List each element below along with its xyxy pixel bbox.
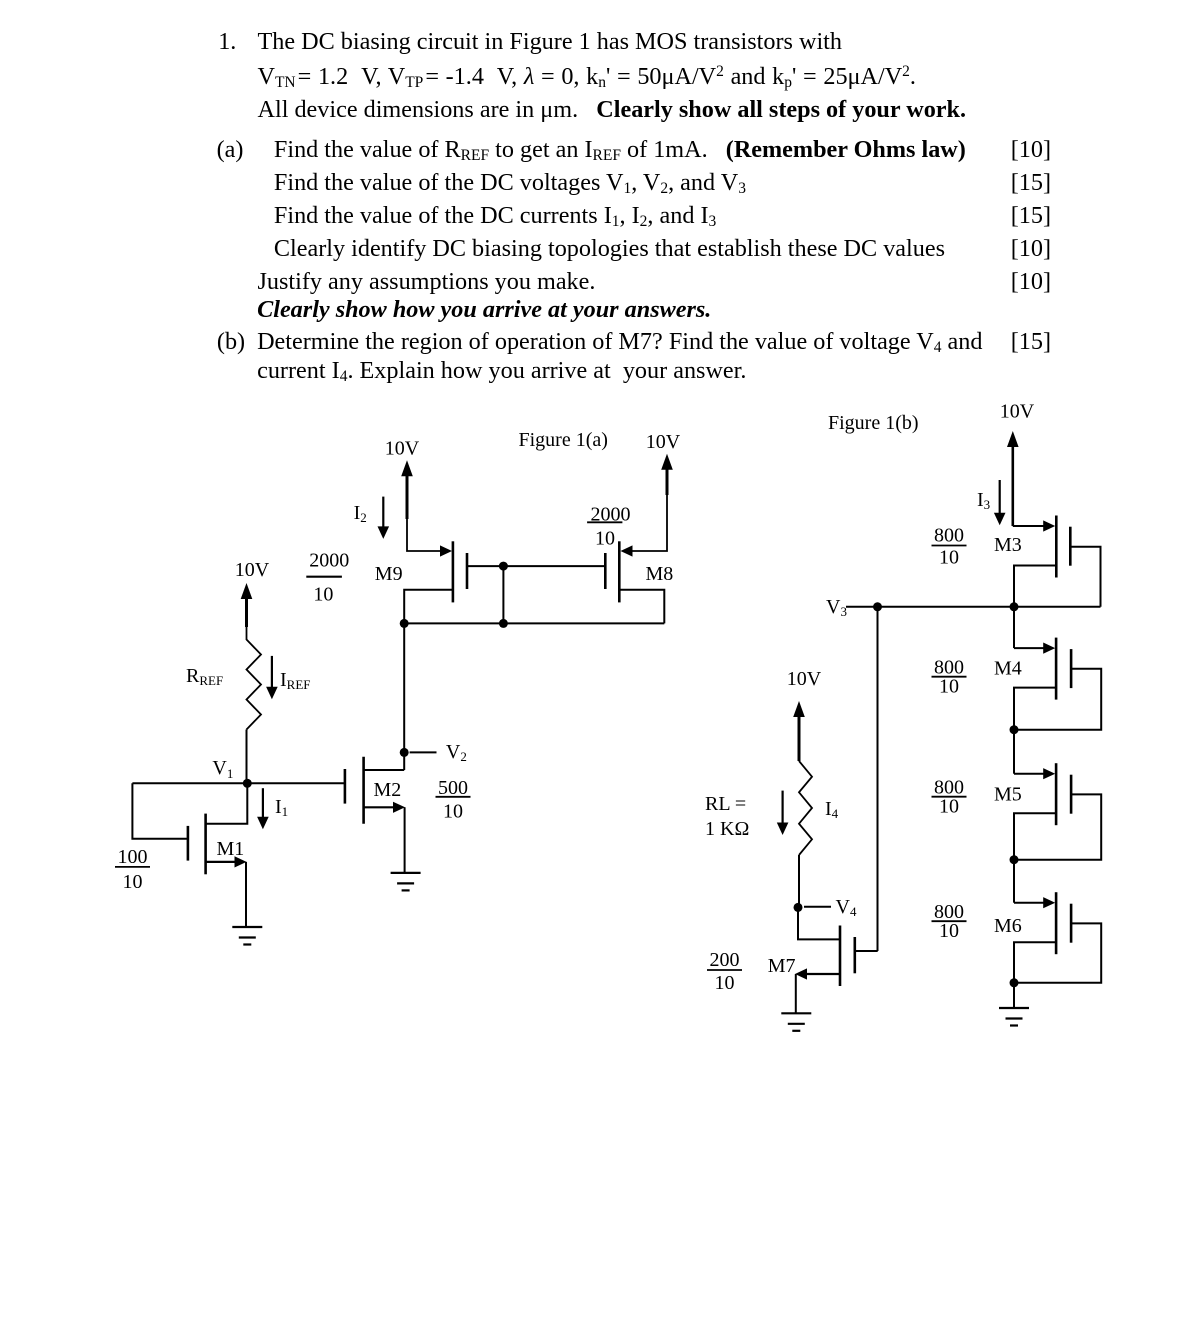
svg-text:500: 500 [438,777,468,799]
svg-text:M2: M2 [374,779,402,801]
current arrow I3 [994,480,1006,525]
label 800/10 (M4 W/L) [932,657,967,698]
label RREF [186,665,223,688]
svg-text:800: 800 [934,525,964,547]
node 10V supply label (left RREF branch) [235,559,270,581]
transistor M7 channel bar [839,926,842,987]
svg-text:I2: I2 [354,502,367,525]
label M9 [375,563,403,585]
svg-text:10: 10 [939,547,959,569]
svg-text:10: 10 [595,527,615,549]
ground (M6) [999,1008,1029,1026]
svg-text:10: 10 [123,871,143,893]
transistor M4 channel bar [1055,638,1058,700]
wire RL to node V4 [798,855,800,907]
svg-text:M5: M5 [994,784,1022,806]
label 800/10 (M6 W/L) [932,901,967,942]
transistor M7 source lead with arrow [795,968,840,979]
ground (M7) [781,1013,811,1031]
transistor M1 source lead with arrow [206,856,247,867]
node V3 junction (M7 gate tap) [873,602,882,611]
transistor M6 drain lead with arrow [1014,897,1055,908]
svg-text:M6: M6 [994,915,1022,937]
wire V1 to M1 drain [206,783,248,823]
svg-text:V4: V4 [836,896,857,919]
svg-text:10: 10 [443,801,463,823]
label I2 [354,502,367,525]
current arrow I2 [378,497,390,539]
svg-text:10: 10 [939,676,959,698]
svg-text:M1: M1 [217,838,245,860]
wire gate bus M9-M8 [467,565,605,567]
transistor M1 channel bar [204,814,207,875]
wire V3 to M4 drain [1013,607,1015,648]
transistor M4 drain lead with arrow [1014,643,1055,654]
svg-text:10V: 10V [235,559,270,581]
svg-text:V3: V3 [826,596,847,619]
label 800/10 (M3 W/L) [932,525,967,569]
label 100/10 (M1 W/L) [115,846,150,893]
svg-text:M8: M8 [646,563,674,585]
wire drain bus to node V2 [403,623,405,770]
node V3 junction (M3/M4) [1010,602,1019,611]
transistor M9 gate bar [466,553,469,589]
label 800/10 (M5 W/L) [932,777,967,818]
label V2 [446,741,467,764]
node M4 source junction [1010,725,1019,734]
wire M6 source [1014,942,1056,983]
transistor M8 source lead with arrow [621,493,668,557]
transistor M8 channel bar [618,541,621,602]
transistor M2 gate bar [344,769,347,804]
label I4 [825,798,839,821]
wire V2 stub [410,751,437,753]
svg-text:1 KΩ: 1 KΩ [705,818,749,840]
wire to M2 drain [364,769,405,771]
wire M6 source to ground [1013,983,1015,1008]
svg-text:M4: M4 [994,658,1022,680]
wire M9 drain [404,590,453,624]
transistor M5 drain lead with arrow [1014,768,1055,779]
wire M5 gate loop [1014,794,1101,859]
ground (M2) [391,873,421,891]
node V4 junction [794,903,803,912]
wire M2 source to ground [404,807,406,873]
svg-text:I1: I1 [275,796,288,819]
node M5 source junction [1010,855,1019,864]
wire M1 gate loop [132,783,187,839]
resistor RL [799,761,812,855]
power supply arrow 10V (RL branch) [793,701,805,761]
wire M7 gate riser [877,607,879,951]
current arrow I4 [777,791,789,835]
wire M3 gate loop to node V3 [1070,547,1100,607]
node 10V supply label (RL branch) [787,668,822,690]
wire M3 source to node V3 [1014,566,1056,607]
current arrow IREF [266,656,278,699]
transistor M8 gate bar [604,553,607,589]
svg-text:10V: 10V [1000,401,1035,423]
transistor M3 drain lead with arrow [1013,520,1055,531]
label V4 [836,896,857,919]
transistor M6 channel bar [1055,892,1058,954]
svg-text:10V: 10V [646,431,681,453]
wire drain bus (M9/M8 drains) [404,622,664,624]
svg-text:200: 200 [710,949,740,971]
label 2000/10 (M9 W/L) [306,549,349,605]
wire M5 to M6 drain [1013,860,1015,903]
node drain bus middle junction [499,619,508,628]
svg-text:10V: 10V [385,438,420,460]
label IREF [280,669,311,692]
label V1 [212,757,233,781]
node M6 source junction [1010,978,1019,987]
wire M7 gate lead [855,950,878,952]
label M6 [994,915,1022,937]
transistor M5 gate bar [1070,775,1073,814]
current arrow I1 [257,788,269,829]
label M4 [994,658,1022,680]
svg-text:Figure 1(a): Figure 1(a) [519,429,608,451]
label M8 [646,563,674,585]
svg-text:IREF: IREF [280,669,311,692]
svg-text:Figure 1(b): Figure 1(b) [828,412,919,434]
node V2 junction [400,748,409,757]
wire M5 source [1014,813,1056,860]
wire M6 gate loop [1014,923,1101,982]
transistor M2 channel bar [362,757,365,824]
power supply arrow 10V (RREF branch) [241,583,253,640]
power supply arrow 10V (M3 branch) [1007,431,1019,526]
svg-text:10V: 10V [787,668,822,690]
wire M1 source to ground [245,862,247,927]
ground (M1) [232,927,262,945]
svg-text:10: 10 [939,920,959,942]
power supply arrow 10V (M9 branch) [401,460,413,519]
wire V1 horizontal (M1 drain gate bus to M2 gate) [132,782,345,784]
svg-text:I4: I4 [825,798,839,821]
wire M7 source to ground [795,974,797,1013]
label 2000/10 (M8 W/L) [587,504,630,550]
label M2 [374,779,402,801]
wire V4 stub [804,906,831,908]
node 10V supply label (M9 branch) [385,438,420,460]
wire M8 drain [619,590,664,624]
transistor M9 channel bar [452,541,455,602]
label M3 [994,534,1022,556]
node 10V supply label (M8 branch) [646,431,681,453]
transistor M6 gate bar [1070,904,1073,943]
svg-text:V2: V2 [446,741,467,764]
label M1 [217,838,245,860]
svg-text:M7: M7 [768,955,796,977]
svg-text:V1: V1 [212,757,233,781]
transistor M7 gate bar [853,937,856,973]
node V1 junction [243,779,252,788]
svg-text:M9: M9 [375,563,403,585]
wire gate junction to drain bus [502,566,504,623]
wire M4 source [1014,688,1056,730]
svg-text:I3: I3 [977,489,990,512]
svg-text:RREF: RREF [186,665,223,688]
node 10V supply label (M3 branch) [1000,401,1035,423]
transistor M3 channel bar [1055,516,1058,578]
label Figure 1(a) [519,429,608,451]
wire M4 gate loop [1014,669,1101,730]
transistor M5 channel bar [1055,763,1058,825]
svg-text:M3: M3 [994,534,1022,556]
resistor RREF [247,640,262,730]
node drain bus left junction [400,619,409,628]
label I1 [275,796,288,819]
label 500/10 (M2 W/L) [436,777,471,823]
wire node V3 bus [846,606,1101,608]
transistor M1 gate bar [187,826,190,861]
label I3 [977,489,990,512]
label M7 [768,955,796,977]
transistor M2 source lead with arrow [364,802,405,813]
svg-text:2000: 2000 [309,549,349,571]
svg-text:100: 100 [118,846,148,868]
label Figure 1(b) [828,412,919,434]
svg-text:10: 10 [715,972,735,994]
transistor M4 gate bar [1070,649,1073,688]
power supply arrow 10V (M8 branch) [661,454,673,495]
label 200/10 (M7 W/L) [707,949,742,994]
label V3 [826,596,847,619]
svg-text:RL =: RL = [705,793,746,815]
transistor M9 source lead with arrow [407,517,452,557]
wire V4 to M7 drain [798,907,840,939]
wire M4 to M5 drain [1013,730,1015,774]
node gate junction [499,562,508,571]
wire resistor to node V1 [246,730,248,784]
svg-text:10: 10 [313,584,333,606]
label M5 [994,784,1022,806]
transistor M3 gate bar [1069,527,1072,566]
label RL = 1 KΩ [705,793,749,840]
svg-text:10: 10 [939,796,959,818]
